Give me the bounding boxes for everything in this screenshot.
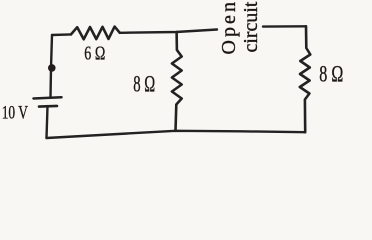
svg-text:8 Ω: 8 Ω [319,61,343,86]
svg-text:6 Ω: 6 Ω [84,42,105,64]
svg-text:circuit: circuit [240,1,262,52]
svg-text:10 V: 10 V [2,102,28,123]
svg-text:8 Ω: 8 Ω [133,71,155,97]
svg-text:Open: Open [218,2,240,55]
